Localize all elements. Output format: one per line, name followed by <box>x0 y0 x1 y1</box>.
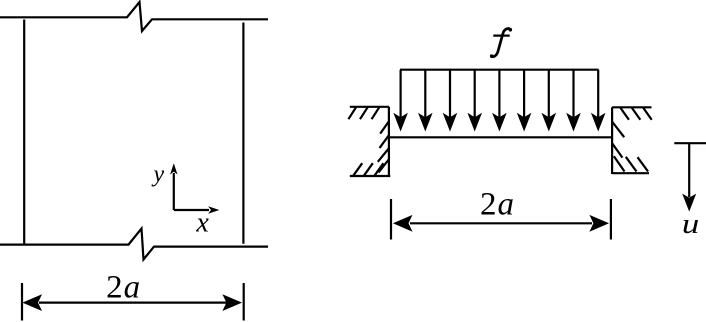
load arrowheads <box>393 113 408 132</box>
svg-text:2a: 2a <box>106 270 141 306</box>
load top line <box>400 69 599 71</box>
svg-text:u: u <box>682 207 699 240</box>
u symbol top bar <box>674 142 706 144</box>
u symbol stem <box>688 143 690 197</box>
right support: inner vertical edge <box>611 107 613 174</box>
left strip: top edge with break <box>0 2 268 31</box>
y axis line <box>173 173 175 210</box>
left strip: right vertical edge <box>242 23 244 244</box>
left dimension left arrowhead <box>22 294 42 311</box>
svg-text:x: x <box>195 208 209 239</box>
svg-text:y: y <box>151 162 164 188</box>
x axis arrowhead <box>208 206 219 213</box>
load arrow stems <box>401 70 599 118</box>
right dimension left arrowhead <box>393 215 413 232</box>
right dimension right arrowhead <box>589 215 609 232</box>
left dimension right arrowhead <box>222 294 242 311</box>
y axis arrowhead <box>170 163 177 174</box>
left dimension line <box>39 302 227 304</box>
left support: top edge <box>350 106 389 108</box>
left dimension ticks <box>22 283 244 321</box>
right support: bottom edge <box>612 172 649 174</box>
left support: inner vertical edge <box>388 107 390 176</box>
left strip: bottom edge with break <box>0 229 268 260</box>
right support hatching <box>612 108 651 172</box>
label f (load) <box>490 28 512 58</box>
right dimension ticks <box>391 199 611 240</box>
x axis line <box>174 209 209 211</box>
svg-text:2a: 2a <box>480 187 515 223</box>
right dimension line <box>410 222 592 224</box>
right support: top edge <box>612 106 651 108</box>
left strip: left vertical edge <box>23 20 25 244</box>
left support hatching <box>348 107 388 176</box>
surface line between supports <box>389 136 612 138</box>
left support: bottom edge <box>350 175 391 177</box>
u displacement arrowhead <box>682 194 696 212</box>
